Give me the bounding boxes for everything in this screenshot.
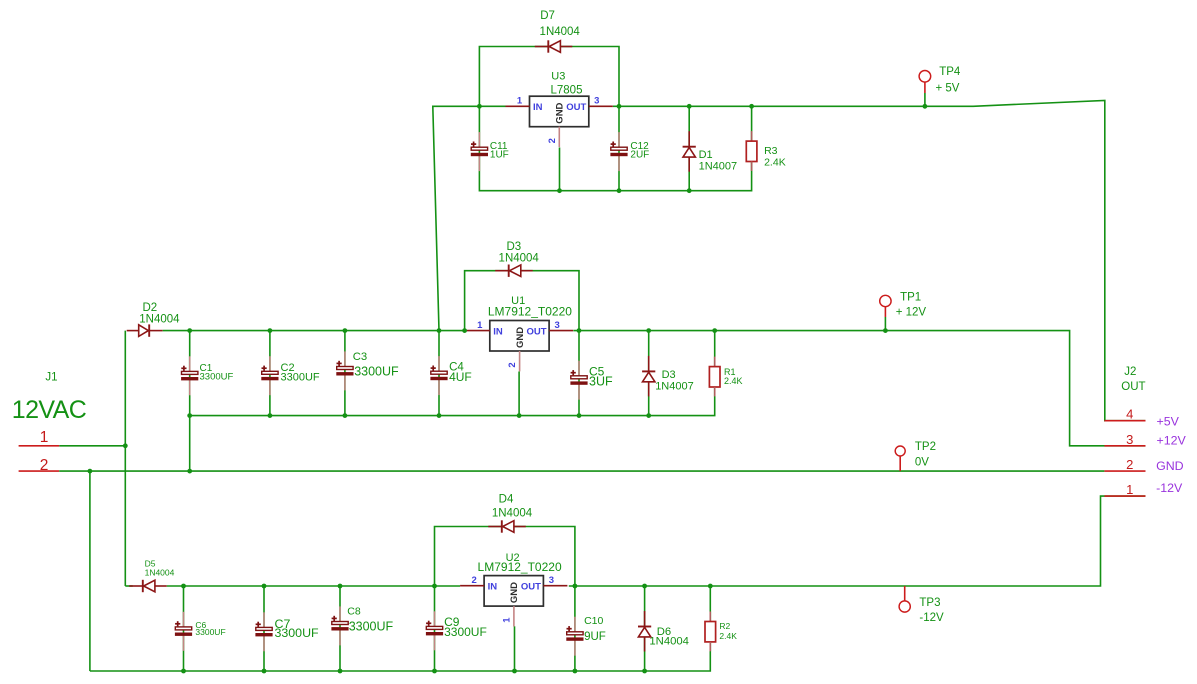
diode D2 1N4004	[127, 302, 180, 337]
junction R2 top	[708, 584, 713, 589]
svg-text:GND: GND	[1156, 459, 1184, 473]
svg-text:3: 3	[1126, 432, 1133, 447]
svg-text:2: 2	[471, 575, 476, 586]
capacitor C2 3300UF	[261, 356, 320, 395]
wire C4 branch	[438, 331, 440, 416]
junction R1 top	[712, 328, 717, 333]
svg-text:-12V: -12V	[1156, 481, 1183, 495]
diode D5 1N4004	[129, 558, 174, 592]
capacitor C8 3300UF	[331, 606, 393, 646]
wire C10 branch	[574, 586, 576, 671]
svg-text:TP2: TP2	[915, 441, 936, 453]
junction TP4	[923, 104, 928, 109]
junction U3 GND	[557, 188, 562, 193]
svg-text:2.4K: 2.4K	[764, 156, 786, 168]
junction C1 top	[187, 328, 192, 333]
junction C3 bottom	[343, 413, 348, 418]
svg-text:R2: R2	[719, 621, 730, 631]
svg-text:OUT: OUT	[527, 326, 547, 337]
junction D3 top	[646, 328, 651, 333]
svg-text:1N4004: 1N4004	[139, 313, 180, 325]
svg-text:1N4007: 1N4007	[655, 380, 694, 392]
svg-text:1N4004: 1N4004	[540, 26, 581, 38]
junction D5/C6	[181, 584, 186, 589]
svg-text:J2: J2	[1124, 366, 1136, 378]
svg-text:+ 5V: + 5V	[936, 83, 960, 95]
wire top section ground rail	[479, 106, 751, 190]
wire 0V rail J1 pin2 to J2 pin2	[59, 470, 1104, 472]
wire U3 GND to ground rail	[559, 148, 561, 191]
capacitor C11 1UF	[471, 132, 509, 171]
junction TP1	[883, 328, 888, 333]
voltage regulator U3 L7805	[506, 71, 613, 148]
svg-text:1: 1	[1126, 482, 1133, 497]
capacitor C3 3300UF	[336, 351, 399, 390]
test point TP1	[880, 291, 927, 318]
svg-text:GND: GND	[509, 582, 520, 603]
wire bottom ground rail	[90, 586, 710, 671]
svg-text:D1: D1	[699, 149, 713, 161]
svg-text:OUT: OUT	[566, 102, 586, 113]
svg-text:1: 1	[477, 320, 483, 331]
svg-text:TP4: TP4	[939, 66, 961, 78]
svg-text:2.4K: 2.4K	[724, 376, 743, 386]
svg-text:L7805: L7805	[551, 84, 583, 96]
svg-text:IN: IN	[493, 326, 503, 337]
wire middle ground rail	[190, 331, 715, 416]
voltage regulator U2 LM7912_T0220	[460, 552, 567, 627]
wire J1 pin 1 to D2	[59, 445, 125, 447]
wire D4 bypass rail	[435, 527, 575, 587]
svg-text:GND: GND	[515, 327, 526, 348]
capacitor C12 2UF	[610, 132, 649, 171]
connector J2 OUT	[1104, 366, 1186, 497]
svg-text:+ 12V: + 12V	[896, 306, 927, 318]
junction R3 top	[749, 104, 754, 109]
svg-text:9UF: 9UF	[584, 631, 606, 643]
svg-text:2UF: 2UF	[630, 149, 649, 160]
svg-text:1: 1	[501, 617, 512, 623]
connector J1 12VAC	[12, 372, 87, 475]
svg-text:IN: IN	[488, 582, 498, 593]
junction C7 top	[262, 584, 267, 589]
junction C10/D4 right	[573, 584, 578, 589]
wire -12V input rail	[167, 585, 460, 587]
junction C1 bottom	[187, 413, 192, 418]
junction C4 bottom	[437, 413, 442, 418]
resistor R1 2.4K	[709, 357, 742, 397]
junction D1 top	[687, 104, 692, 109]
junction C12 bottom	[617, 188, 622, 193]
junction C5/D3 bypass right	[577, 328, 582, 333]
wire C12 branch	[618, 106, 620, 190]
capacitor C7 3300UF	[255, 612, 319, 651]
svg-text:3300UF: 3300UF	[275, 626, 320, 640]
wire D3 bypass rail	[465, 271, 579, 331]
svg-text:2: 2	[507, 362, 518, 367]
junction C2 top	[268, 328, 273, 333]
junction C1 ground	[187, 469, 192, 474]
svg-text:1N4004: 1N4004	[145, 567, 175, 577]
wire J1 riser to D5	[125, 585, 132, 587]
wire C7 branch	[263, 586, 265, 671]
test point TP3	[899, 586, 944, 624]
junction U2 GND	[512, 669, 517, 674]
junction D3 bypass left	[462, 328, 467, 333]
diode D3 1N4004	[495, 241, 539, 277]
svg-text:OUT: OUT	[1121, 381, 1145, 393]
svg-text:2.4K: 2.4K	[719, 631, 737, 641]
diode D7 1N4004	[535, 10, 581, 53]
capacitor C6 3300UF	[175, 612, 226, 651]
svg-text:J1: J1	[45, 372, 57, 384]
svg-text:1N4004: 1N4004	[499, 253, 540, 265]
junction 0V riser	[88, 469, 93, 474]
svg-text:LM7912_T0220: LM7912_T0220	[488, 305, 572, 319]
wire D6 branch	[644, 586, 646, 671]
svg-text:-12V: -12V	[919, 612, 944, 624]
svg-text:3300UF: 3300UF	[444, 625, 487, 639]
wire U3 output rail to TP4 and J2	[613, 100, 1146, 420]
junction C12/D7 right	[617, 104, 622, 109]
wire U1 GND to ground rail	[518, 372, 520, 416]
wire vertical J1 pin1 riser	[124, 331, 126, 586]
junction C6 bottom	[181, 669, 186, 674]
wire TP1 stem to rail	[884, 317, 886, 331]
svg-text:1N4004: 1N4004	[492, 508, 533, 520]
wire +12V rail right of U1	[573, 331, 1145, 446]
diode D6 1N4004	[638, 611, 689, 652]
svg-text:3300UF: 3300UF	[195, 627, 225, 637]
svg-text:2: 2	[40, 457, 49, 474]
junction C4/U3 feed	[437, 328, 442, 333]
svg-text:D3: D3	[506, 241, 521, 253]
junction D1 bottom	[687, 188, 692, 193]
junction D6 bottom	[642, 669, 647, 674]
wire C2 branch	[269, 331, 271, 416]
wire C1 branch down to 0V	[189, 331, 191, 472]
voltage regulator U1 LM7912_T0220	[466, 295, 573, 371]
junction C8 bottom	[338, 669, 343, 674]
wire 0V riser to bottom section	[89, 471, 91, 671]
svg-text:U3: U3	[551, 71, 565, 83]
svg-text:3: 3	[594, 96, 599, 107]
svg-text:1N4007: 1N4007	[699, 161, 738, 173]
svg-text:3: 3	[549, 575, 554, 586]
svg-text:+12V: +12V	[1157, 433, 1187, 447]
svg-text:IN: IN	[533, 102, 543, 113]
wire C5/D3 branch	[578, 331, 580, 416]
junction C9/D4 left	[432, 584, 437, 589]
diode D4 1N4004	[488, 494, 532, 533]
capacitor C9 3300UF	[426, 611, 487, 650]
svg-text:1UF: 1UF	[490, 149, 509, 160]
wire -12V output rail to J2 pin1	[569, 496, 1146, 586]
junction C10 bottom	[573, 669, 578, 674]
junction C9 bottom	[432, 669, 437, 674]
capacitor C10 9UF	[566, 615, 606, 656]
svg-text:C8: C8	[347, 606, 361, 618]
svg-text:1N4004: 1N4004	[649, 636, 689, 648]
svg-text:3300UF: 3300UF	[354, 365, 399, 379]
svg-text:4UF: 4UF	[449, 370, 472, 384]
junction D6 top	[642, 584, 647, 589]
junction D3 bottom	[646, 413, 651, 418]
svg-text:C3: C3	[353, 351, 367, 363]
svg-text:GND: GND	[555, 102, 566, 123]
svg-text:LM7912_T0220: LM7912_T0220	[478, 560, 562, 574]
capacitor C4 4UF	[430, 356, 471, 395]
wire +12V feed to U3 input	[433, 106, 506, 330]
svg-text:+5V: +5V	[1157, 415, 1180, 429]
svg-text:1: 1	[517, 96, 523, 107]
svg-text:1: 1	[40, 429, 49, 446]
svg-text:3300UF: 3300UF	[200, 372, 234, 383]
wire TP4 stem to rail	[924, 93, 926, 106]
test point TP2	[895, 441, 936, 471]
wire C6 branch	[183, 586, 185, 671]
diode D3 1N4007	[642, 356, 694, 397]
resistor R2 2.4K	[705, 612, 737, 652]
svg-text:12VAC: 12VAC	[12, 396, 87, 424]
junction U1 GND	[517, 413, 522, 418]
junction C5 bottom	[577, 413, 582, 418]
wire D1 branch	[688, 106, 690, 190]
svg-text:3300UF: 3300UF	[349, 619, 394, 633]
svg-text:0V: 0V	[915, 457, 929, 469]
wire C8 branch	[339, 586, 341, 671]
svg-text:4: 4	[1126, 407, 1133, 422]
svg-text:3300UF: 3300UF	[281, 372, 320, 384]
wire C9 branch	[434, 586, 436, 671]
capacitor C5 3UF	[570, 361, 613, 400]
resistor R3 2.4K	[746, 131, 785, 171]
junction C3 top	[343, 328, 348, 333]
junction C2 bottom	[268, 413, 273, 418]
svg-text:OUT: OUT	[521, 582, 541, 593]
wire D3 protection branch	[648, 331, 650, 416]
svg-text:TP3: TP3	[919, 597, 940, 609]
wire U2 GND to ground rail	[514, 626, 516, 671]
svg-text:3: 3	[554, 320, 559, 331]
wire +12V rail	[163, 330, 466, 332]
svg-text:C10: C10	[584, 615, 603, 627]
svg-text:2: 2	[547, 138, 558, 143]
junction C11/D7 left	[477, 104, 482, 109]
junction J1 pin1 riser	[123, 443, 128, 448]
capacitor C1 3300UF	[181, 356, 233, 395]
svg-text:3UF: 3UF	[589, 375, 613, 389]
svg-text:TP1: TP1	[900, 291, 921, 303]
junction C8 top	[338, 584, 343, 589]
svg-text:D4: D4	[499, 494, 514, 506]
svg-text:D7: D7	[540, 10, 555, 22]
wire C3 branch	[344, 331, 346, 416]
test point TP4	[919, 66, 961, 95]
wire D7 bypass top rail	[479, 47, 619, 107]
diode D1 1N4007	[683, 131, 738, 172]
junction C7 bottom	[262, 669, 267, 674]
svg-text:D3: D3	[662, 369, 676, 381]
svg-text:2: 2	[1126, 457, 1133, 472]
svg-text:D2: D2	[142, 302, 157, 314]
